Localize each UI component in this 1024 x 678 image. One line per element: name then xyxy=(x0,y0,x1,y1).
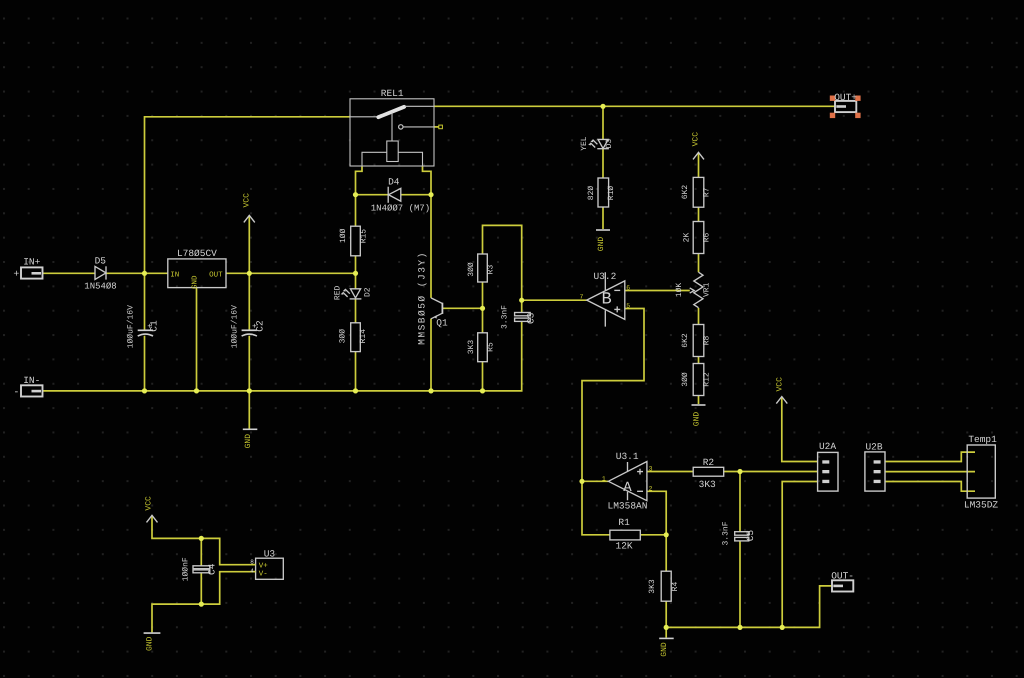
resistor R5 xyxy=(478,333,488,362)
wire R12 to GND xyxy=(698,396,700,405)
svg-text:U3.2: U3.2 xyxy=(593,271,616,282)
capacitor C3 xyxy=(515,313,531,316)
svg-text:A: A xyxy=(623,480,632,496)
connector OUT- xyxy=(832,580,853,591)
svg-text:VCC: VCC xyxy=(776,377,785,392)
wire D2 cathode to R14 xyxy=(355,299,357,323)
relay coil xyxy=(387,141,398,162)
svg-text:GND: GND xyxy=(191,275,200,289)
svg-text:1ØØuF/16V: 1ØØuF/16V xyxy=(230,305,239,348)
svg-text:GND: GND xyxy=(693,412,702,427)
wire OUT rail to D2 anode xyxy=(355,273,357,288)
wire IN- ground rail xyxy=(43,322,522,391)
svg-text:R3: R3 xyxy=(487,265,496,275)
svg-text:GND: GND xyxy=(145,636,154,651)
relay armature link xyxy=(391,113,393,142)
node R1 right xyxy=(664,532,669,537)
vcc arrow above U2A xyxy=(776,397,787,404)
connector OUT+ xyxy=(835,101,856,112)
svg-text:R4: R4 xyxy=(671,582,680,592)
svg-text:3: 3 xyxy=(649,466,653,473)
resistor R2 xyxy=(693,467,724,476)
wire C4 bottom xyxy=(200,573,202,604)
node C5 bottom xyxy=(737,625,742,630)
resistor R4 xyxy=(661,571,671,601)
wire relay NO pin stub xyxy=(434,126,439,128)
wire Q1 collector column xyxy=(430,195,432,298)
wire R6 to VR1 xyxy=(698,254,700,273)
wire VCC into U3 V+ xyxy=(152,515,256,564)
node C3 top xyxy=(519,298,524,303)
wire R5 bottom to ground rail xyxy=(482,362,484,391)
wire U3.1 pin3 to R2 xyxy=(647,471,693,473)
regulator U4 L7805CV box xyxy=(168,259,226,288)
LED D3 xyxy=(598,139,608,148)
connector IN+ xyxy=(21,267,43,278)
gnd bar bottom-left xyxy=(144,632,161,634)
gnd bar output rail xyxy=(659,637,674,639)
svg-text:B: B xyxy=(601,291,611,310)
wire C2 column bottom xyxy=(248,336,250,391)
relay REL1 box xyxy=(350,99,434,166)
gnd bar below C2 xyxy=(243,428,257,430)
wire relay coil left exit xyxy=(356,166,363,195)
gnd bar below R12 xyxy=(692,404,706,406)
wire D3 to R10 xyxy=(602,149,604,178)
capacitor C1 xyxy=(138,329,153,331)
svg-text:1N4ØØ7 (M7): 1N4ØØ7 (M7) xyxy=(371,204,430,214)
node R4 gnd rail xyxy=(664,625,669,630)
relay NO open pin square xyxy=(439,125,443,129)
svg-text:VR1: VR1 xyxy=(702,282,711,297)
wire C5 column bottom xyxy=(739,541,741,627)
svg-text:VCC: VCC xyxy=(243,193,252,208)
connector U2A xyxy=(818,452,838,491)
LED D2 xyxy=(350,289,360,298)
svg-text:-: - xyxy=(13,387,19,398)
node 7805 gnd xyxy=(194,388,199,393)
op-amp U3.2 xyxy=(587,281,625,320)
svg-text:3ØØ: 3ØØ xyxy=(681,372,690,387)
svg-text:U2B: U2B xyxy=(865,441,882,452)
svg-text:2K: 2K xyxy=(683,233,692,243)
resistor R14 xyxy=(351,323,361,352)
wire base node to R5 top xyxy=(482,308,484,333)
svg-text:D2: D2 xyxy=(364,287,373,297)
capacitor C5 xyxy=(735,532,749,536)
wire D4 cathode segment xyxy=(401,194,431,196)
svg-text:Q1: Q1 xyxy=(436,318,448,329)
svg-text:OUT: OUT xyxy=(209,270,223,279)
wire D5 cathode to L7805 IN xyxy=(106,272,168,274)
wire top rail D3 column xyxy=(602,106,604,139)
svg-text:OUT+: OUT+ xyxy=(834,92,857,103)
wire R3 top over to C3 column xyxy=(483,225,522,312)
OUT+ selection handles xyxy=(830,96,861,119)
U3 pin stubs xyxy=(252,565,256,572)
wire R10 to GND xyxy=(602,207,604,229)
svg-text:1ØØuF/16V: 1ØØuF/16V xyxy=(126,305,135,348)
wire C5 column top xyxy=(739,472,741,532)
resistor R8 xyxy=(693,325,704,357)
svg-text:3ØØ: 3ØØ xyxy=(338,329,347,344)
resistor R10 xyxy=(598,178,609,207)
svg-text:IN: IN xyxy=(170,271,179,279)
svg-text:R2: R2 xyxy=(703,457,715,468)
capacitor C4 xyxy=(193,566,210,569)
vcc arrow above C2 xyxy=(244,215,255,222)
capacitor C2 xyxy=(242,329,257,331)
svg-text:5: 5 xyxy=(626,303,630,310)
svg-text:IN+: IN+ xyxy=(23,257,40,268)
svg-text:LM35DZ: LM35DZ xyxy=(964,499,999,510)
svg-text:L78Ø5CV: L78Ø5CV xyxy=(177,248,217,259)
svg-text:YEL: YEL xyxy=(580,136,589,151)
svg-text:C2: C2 xyxy=(255,320,266,332)
wire L7805 GND pin down xyxy=(196,288,198,391)
wire relay to OUT+ top rail xyxy=(434,105,835,107)
resistor R12 xyxy=(693,364,704,396)
svg-text:R14: R14 xyxy=(359,329,368,344)
wire C4 top xyxy=(200,538,202,565)
node U3.1 output xyxy=(579,479,584,484)
svg-text:+: + xyxy=(13,270,19,281)
svg-text:C5: C5 xyxy=(745,530,756,542)
svg-text:7: 7 xyxy=(579,294,583,301)
svg-text:R1: R1 xyxy=(618,517,630,528)
svg-text:VCC: VCC xyxy=(144,496,153,511)
wire Q1 emitter column xyxy=(430,319,432,391)
wire R8 to R12 xyxy=(698,357,700,364)
resistor R3 xyxy=(478,254,488,282)
svg-text:D5: D5 xyxy=(95,256,107,267)
node R14 bottom xyxy=(353,388,358,393)
connector U2B xyxy=(865,452,885,491)
svg-text:1ØØ: 1ØØ xyxy=(339,228,348,243)
svg-text:3K3: 3K3 xyxy=(648,579,657,594)
svg-text:C1: C1 xyxy=(148,320,159,332)
wire R7 to R6 xyxy=(698,207,700,221)
svg-text:V-: V- xyxy=(259,571,268,579)
resistor R1 xyxy=(610,530,640,540)
svg-text:R7: R7 xyxy=(703,187,712,197)
connector IN- xyxy=(21,385,43,396)
transistor Q1 xyxy=(431,298,442,304)
node Q1 base xyxy=(480,306,485,311)
svg-text:R1Ø: R1Ø xyxy=(607,186,616,201)
wire D4 anode segment xyxy=(356,194,389,196)
wire U3.1 pin2 down to R4 xyxy=(647,491,666,571)
wire VCC to C2 node xyxy=(248,215,250,273)
relay common contact line xyxy=(405,105,435,107)
relay armature xyxy=(350,116,378,118)
svg-text:LM358AN: LM358AN xyxy=(608,501,648,512)
svg-text:V+: V+ xyxy=(259,562,269,570)
svg-text:U2A: U2A xyxy=(819,441,836,452)
wire Q1 base to R3/R5 node xyxy=(442,307,482,309)
svg-text:GND: GND xyxy=(597,237,606,252)
svg-text:IN-: IN- xyxy=(23,375,40,386)
svg-text:REL1: REL1 xyxy=(381,88,404,99)
wire node to U3.1 output pin1 xyxy=(582,480,608,482)
node C2 top xyxy=(247,271,252,276)
svg-text:2: 2 xyxy=(649,485,653,492)
diode D4 xyxy=(389,188,401,201)
connector Temp1 xyxy=(967,445,995,498)
svg-text:R5: R5 xyxy=(487,342,496,352)
svg-text:1N54Ø8: 1N54Ø8 xyxy=(84,282,116,292)
wire relay feed from C1 node xyxy=(145,117,351,273)
svg-text:3.3nF: 3.3nF xyxy=(501,305,510,329)
wire C1 column bottom xyxy=(144,336,146,391)
svg-text:RED: RED xyxy=(334,286,343,301)
svg-text:GND: GND xyxy=(244,434,253,449)
wire R3 bottom to base node xyxy=(482,282,484,308)
svg-text:82Ø: 82Ø xyxy=(587,186,596,201)
vcc arrow above R7 xyxy=(693,152,704,159)
wire U3.2 pin5 feedback run xyxy=(582,309,644,482)
wire VR1 to R8 xyxy=(698,308,700,325)
resistor R6 xyxy=(693,222,704,254)
node C2 bottom xyxy=(247,388,252,393)
svg-text:3K3: 3K3 xyxy=(467,340,476,355)
node D4 left xyxy=(353,192,358,197)
wire R2 right to U2A mid pin xyxy=(724,471,818,473)
node C1 bottom xyxy=(142,388,147,393)
wire VCC to R7 xyxy=(698,152,700,177)
node U2A rail xyxy=(780,625,785,630)
wire L7805 OUT rail xyxy=(226,272,356,274)
wire U3 V- loop to GND xyxy=(152,572,256,633)
svg-text:6: 6 xyxy=(626,285,630,292)
svg-text:12K: 12K xyxy=(616,541,633,552)
op-amp U3.1 xyxy=(608,462,647,501)
resistor R7 xyxy=(693,177,704,207)
node D3 top xyxy=(600,104,605,109)
svg-text:R15: R15 xyxy=(360,229,369,244)
svg-text:3ØØ: 3ØØ xyxy=(467,262,476,277)
svg-text:D3: D3 xyxy=(605,139,614,149)
diode D5 xyxy=(95,266,106,279)
svg-text:GND: GND xyxy=(660,642,669,657)
svg-text:MMSBØ5Ø (J3Y): MMSBØ5Ø (J3Y) xyxy=(417,251,428,345)
potentiometer VR1 zigzag xyxy=(694,272,703,308)
svg-text:R6: R6 xyxy=(703,233,712,243)
svg-text:6K2: 6K2 xyxy=(681,185,690,200)
node C4 top xyxy=(199,536,204,541)
svg-text:Temp1: Temp1 xyxy=(968,434,997,445)
vcc arrow bottom-left xyxy=(147,515,158,522)
svg-text:6K2: 6K2 xyxy=(681,333,690,348)
svg-text:C3: C3 xyxy=(526,312,537,324)
svg-text:U3: U3 xyxy=(264,548,276,559)
wire R4 bottom to output ground rail xyxy=(665,601,667,627)
node R2 right xyxy=(737,469,742,474)
wire C2 column top xyxy=(248,273,250,330)
svg-text:1: 1 xyxy=(602,475,606,482)
svg-text:U3.1: U3.1 xyxy=(616,451,639,462)
wire U2B pin3 to Temp1 xyxy=(885,482,975,492)
svg-text:VCC: VCC xyxy=(691,132,700,147)
wire C2 node to GND xyxy=(248,391,250,429)
wire rail GND stub xyxy=(665,627,667,637)
wire R14 bottom to ground rail xyxy=(355,352,357,391)
wire R15 bottom to OUT rail xyxy=(355,256,357,273)
node D4 right xyxy=(428,192,433,197)
IC U3 power box xyxy=(256,558,284,579)
wire relay coil right exit xyxy=(423,166,432,195)
wire R1 right to pin2 column xyxy=(640,534,666,536)
relay NO contact xyxy=(399,125,403,129)
wire node down to R1 left xyxy=(582,481,610,535)
svg-text:D4: D4 xyxy=(388,177,400,188)
svg-text:3K3: 3K3 xyxy=(699,479,716,490)
wire U2A bottom pin to ground rail xyxy=(782,482,817,628)
node C1 top xyxy=(142,271,147,276)
svg-text:OUT-: OUT- xyxy=(831,571,854,582)
svg-text:4: 4 xyxy=(250,567,254,574)
svg-text:3.3nF: 3.3nF xyxy=(722,521,731,545)
node R5 bottom xyxy=(480,388,485,393)
wire output ground rail to OUT- xyxy=(666,586,832,628)
wire U3.2 pin6 to VR1 wiper xyxy=(625,290,690,292)
node Q1 emitter xyxy=(428,388,433,393)
svg-text:1ØØnF: 1ØØnF xyxy=(182,557,191,581)
svg-text:R12: R12 xyxy=(703,372,712,387)
svg-text:8: 8 xyxy=(250,558,254,565)
wire R15 top to D4 node xyxy=(355,195,357,227)
wire U2B pin1 to Temp1 xyxy=(885,452,975,461)
wire VCC down to U2A top pin xyxy=(782,397,818,462)
gnd bar below R10 xyxy=(596,229,610,231)
svg-text:1ØK: 1ØK xyxy=(675,283,684,298)
svg-text:R8: R8 xyxy=(703,336,712,346)
resistor R15 xyxy=(351,226,361,256)
VR1 wiper arrow xyxy=(690,288,695,293)
wire U2B pin2 to Temp1 xyxy=(885,471,975,473)
wire IN+ to D5 anode xyxy=(43,272,96,274)
svg-text:C4: C4 xyxy=(206,563,217,575)
node C4 bottom xyxy=(199,602,204,607)
node R15/D2 xyxy=(353,271,358,276)
wire C1 column top xyxy=(144,273,146,330)
wire C3 node to U3.2 output pin 7 xyxy=(522,299,587,301)
